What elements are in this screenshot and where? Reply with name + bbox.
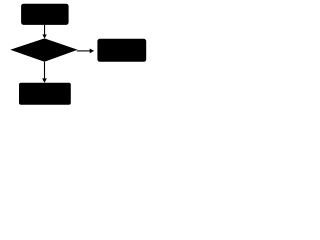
arrowhead into right box — [90, 49, 94, 54]
arrowhead into bottom box — [42, 78, 47, 82]
wire diamond to bottom box — [44, 62, 46, 79]
process box top — [21, 4, 69, 25]
process box right — [97, 39, 146, 62]
decision diamond — [10, 38, 78, 61]
wire diamond to right box — [77, 50, 90, 52]
arrowhead into diamond top — [42, 35, 47, 39]
process box bottom — [19, 83, 71, 105]
wire top box to diamond — [44, 25, 46, 35]
